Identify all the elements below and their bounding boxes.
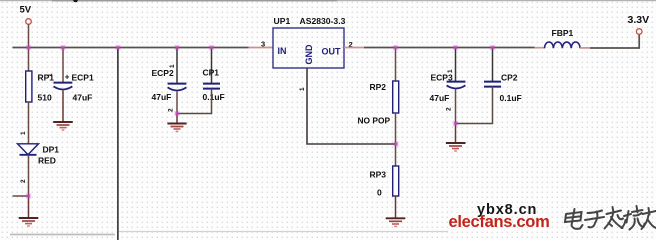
svg-text:0.1uF: 0.1uF [203,92,225,102]
svg-text:1: 1 [20,131,27,135]
wire FBP1 to 3.3V terminal [590,34,639,48]
svg-text:ECP3: ECP3 [431,73,453,83]
wire RP1 to DP1 [28,102,30,144]
watermark chinese characters [565,206,656,230]
svg-text:IN: IN [278,46,287,56]
diode DP1 [18,144,39,155]
top window border line [0,0,656,1]
capacitor ECP2 [168,83,187,85]
svg-text:ECP2: ECP2 [152,68,174,78]
svg-text:OUT: OUT [322,47,342,57]
wire ECP3 top [455,48,457,82]
inductor FBP1 [545,42,581,48]
pin of FBP1 right [580,47,590,49]
svg-text:GND: GND [304,44,314,65]
char fa [605,207,624,229]
sheet border vertical line [117,49,119,240]
svg-text:3.3V: 3.3V [628,14,650,26]
svg-text:RP2: RP2 [370,82,387,92]
svg-text:1: 1 [299,87,306,91]
char zi [585,211,604,228]
svg-text:2: 2 [168,108,175,112]
node ECP2-CP1 bottom junction [175,111,179,115]
wire ECP3 bottom [455,90,457,124]
char shao [622,206,645,230]
node ECP3-CP2 bottom junction [453,121,457,125]
svg-text:5V: 5V [20,5,32,16]
svg-text:1: 1 [47,73,54,77]
wire DP1 to ground node [28,155,30,196]
node ECP2 top junction [175,45,179,49]
wire CP2 bottom [456,87,493,124]
node ECP3 top junction [453,45,457,49]
wire ECP2 top [176,48,178,84]
capacitor ECP1 [54,82,73,84]
svg-text:2: 2 [446,107,453,111]
svg-text:510: 510 [38,93,52,103]
node DP1 cathode junction [26,194,30,198]
regulator UP1 box [273,28,344,68]
node GND-RP2-RP3 junction [394,142,398,146]
wire CP2 top [492,48,494,82]
svg-text:2: 2 [20,179,27,183]
wire 5V stub [28,24,30,47]
svg-text:FBP1: FBP1 [552,28,574,38]
wire main input bus [13,47,249,49]
pin 2 of UP1 [344,47,364,49]
svg-text:0: 0 [377,188,382,198]
svg-text:0.1uF: 0.1uF [500,93,522,103]
node RP2 top junction [393,45,397,49]
char you [642,208,656,229]
wire RP2 top [395,48,397,82]
node 5V rail junction [26,45,30,49]
svg-text:CP1: CP1 [203,68,220,78]
capacitor CP1 [203,83,220,85]
resistor RP1 [26,71,32,102]
resistor RP2 [393,81,399,113]
wire CP1 bottom [177,89,212,114]
svg-text:AS2830-3.3: AS2830-3.3 [300,16,346,26]
wire RP2 bottom [395,113,397,144]
wire left stub at node [13,195,29,197]
svg-text:RED: RED [38,156,56,166]
ground below RP3 [386,217,406,219]
svg-text:ECP1: ECP1 [72,73,94,83]
wire RP3 bottom [395,196,397,218]
resistor RP3 [393,166,399,196]
svg-text:47uF: 47uF [152,92,172,102]
svg-text:elecfans.com: elecfans.com [449,213,550,231]
wire RP3 top [395,144,397,166]
wire ECP1 top [62,48,64,83]
wire UP1 GND to RP2/RP3 node [307,68,396,144]
node CP2 top junction [490,45,494,49]
svg-text:DP1: DP1 [43,145,60,155]
capacitor CP2 [484,81,501,83]
ground below ECP3 [455,124,457,144]
sheet border bottom-right line [119,231,448,233]
wire ECP1 bottom [62,91,64,123]
wire ECP2 bottom [176,92,178,114]
node CP1 top junction [209,45,213,49]
svg-text:CP2: CP2 [501,73,518,83]
ground below DP1 [28,196,30,218]
ground below ECP1 [53,121,73,123]
node sheet-wire junction [116,45,120,49]
svg-text:NO POP: NO POP [358,116,391,126]
svg-text:47uF: 47uF [73,93,93,103]
wire CP1 top [211,48,213,84]
pin 3 of UP1 [249,47,274,49]
wire RP1 top [28,48,30,72]
sheet border bottom-left line [10,234,115,236]
ground below ECP2 [176,114,178,124]
svg-text:47uF: 47uF [430,93,450,103]
svg-text:RP3: RP3 [370,170,387,180]
node ECP1 top junction [61,45,65,49]
wire output bus [364,47,535,49]
svg-text:+: + [65,73,70,82]
capacitor ECP3 [447,81,466,83]
svg-text:UP1: UP1 [274,16,291,26]
pin of FBP1 left [535,47,545,49]
char dian [565,209,583,229]
